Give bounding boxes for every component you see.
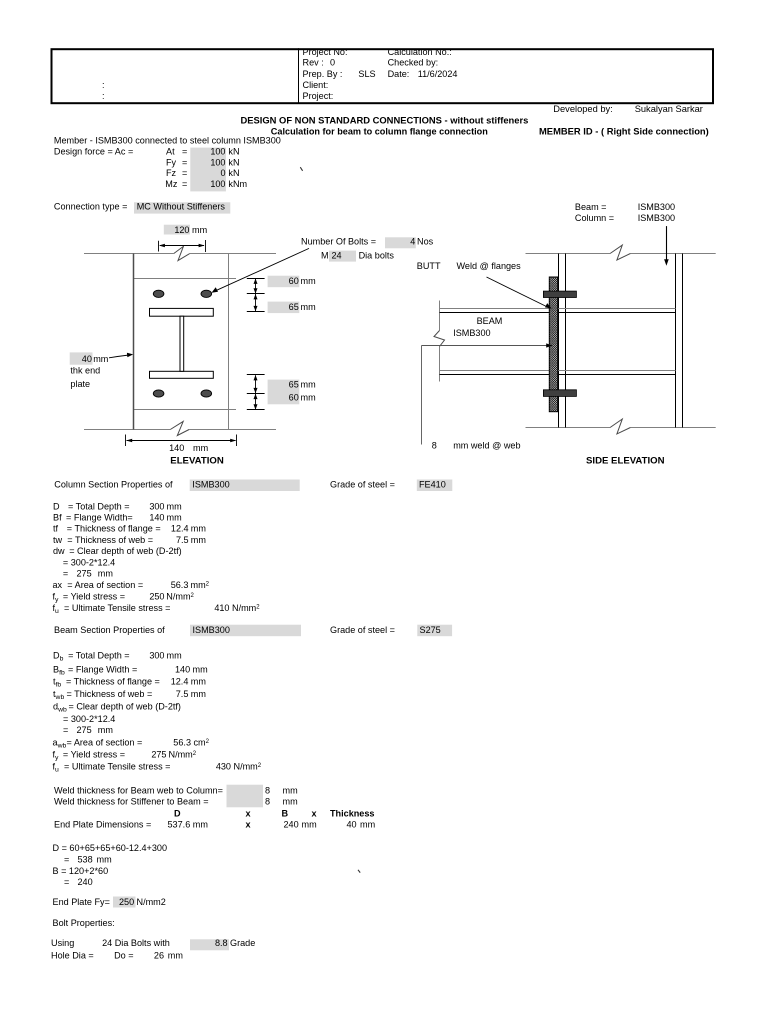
svg-text:mm: mm: [360, 820, 375, 830]
svg-text:mm: mm: [193, 443, 208, 453]
svg-text:plate: plate: [70, 379, 90, 389]
svg-text:= 300-2*12.4: = 300-2*12.4: [63, 714, 115, 724]
svg-text:BEAM: BEAM: [477, 316, 503, 326]
svg-text:=: =: [64, 855, 69, 865]
svg-text:Do =: Do =: [114, 950, 133, 960]
svg-text:At: At: [166, 146, 175, 156]
svg-text:thk end: thk end: [70, 366, 100, 376]
svg-text:Grade: Grade: [230, 938, 255, 948]
svg-text:120: 120: [174, 225, 189, 235]
svg-text:=: =: [63, 568, 68, 578]
svg-text:mm: mm: [301, 392, 316, 402]
svg-text:Hole Dia =: Hole Dia =: [51, 950, 94, 960]
svg-text:mm weld @ web: mm weld @ web: [453, 440, 520, 450]
svg-text:8: 8: [432, 440, 437, 450]
svg-text:mm: mm: [192, 225, 207, 235]
svg-text:Checked by:: Checked by:: [388, 58, 439, 68]
svg-text:410: 410: [214, 603, 229, 613]
svg-text:300: 300: [149, 501, 164, 511]
svg-text:= Total Depth =: = Total Depth =: [68, 501, 130, 511]
svg-text:240: 240: [78, 877, 93, 887]
svg-text:ELEVATION: ELEVATION: [170, 455, 224, 466]
svg-text:140: 140: [149, 513, 164, 523]
svg-text:0: 0: [220, 168, 225, 178]
svg-text:mm: mm: [283, 786, 298, 796]
svg-text:= Thickness of web =: = Thickness of web =: [67, 535, 153, 545]
svg-text:mm: mm: [191, 689, 206, 699]
svg-text:Grade of steel =: Grade of steel =: [330, 479, 395, 489]
svg-text:= Thickness of flange =: = Thickness of flange =: [67, 524, 161, 534]
svg-text:8: 8: [265, 797, 270, 807]
svg-text:mm: mm: [193, 664, 208, 674]
svg-text:140: 140: [169, 443, 184, 453]
svg-text:tfb: tfb: [53, 677, 61, 689]
svg-text:dw: dw: [53, 546, 65, 556]
svg-text:538: 538: [78, 855, 93, 865]
svg-text:8: 8: [265, 786, 270, 796]
svg-text:= Ultimate Tensile stress =: = Ultimate Tensile stress =: [64, 603, 170, 613]
svg-text:Design force = Ac =: Design force = Ac =: [54, 146, 133, 156]
svg-text:65: 65: [289, 302, 299, 312]
svg-text:x: x: [246, 820, 251, 830]
svg-text:tw: tw: [53, 535, 63, 545]
svg-text:537.6 mm: 537.6 mm: [168, 820, 208, 830]
svg-text:End Plate Dimensions =: End Plate Dimensions =: [54, 820, 151, 830]
svg-text:ISMB300: ISMB300: [192, 479, 229, 489]
svg-text:mm: mm: [301, 302, 316, 312]
svg-text:= Area of section =: = Area of section =: [67, 580, 143, 590]
svg-text:ISMB300: ISMB300: [638, 213, 675, 223]
svg-text:SLS: SLS: [358, 69, 375, 79]
svg-text:Weld @ flanges: Weld @ flanges: [457, 261, 522, 271]
svg-text:= Thickness of flange =: = Thickness of flange =: [66, 677, 160, 687]
svg-text:dwb: dwb: [53, 702, 67, 714]
svg-text:4: 4: [410, 237, 415, 247]
svg-text:fu: fu: [53, 762, 60, 774]
svg-text:Connection type =: Connection type =: [54, 202, 128, 212]
svg-text:Fz: Fz: [166, 168, 177, 178]
svg-text:mm: mm: [168, 950, 183, 960]
svg-text:N/mm2: N/mm2: [169, 750, 197, 760]
svg-text:7.5: 7.5: [176, 535, 189, 545]
svg-text:Column Section Properties of: Column Section Properties of: [54, 479, 173, 489]
svg-text:S275: S275: [420, 625, 441, 635]
svg-text:mm: mm: [191, 535, 206, 545]
svg-text:7.5: 7.5: [176, 689, 189, 699]
svg-text:mm: mm: [283, 797, 298, 807]
svg-text:mm: mm: [191, 677, 206, 687]
svg-text:=: =: [182, 146, 187, 156]
svg-text:fu: fu: [53, 603, 60, 615]
svg-text:250: 250: [149, 591, 164, 601]
svg-text:MC Without Stiffeners: MC Without Stiffeners: [137, 202, 226, 212]
svg-text:=: =: [63, 725, 68, 735]
svg-text:40: 40: [82, 354, 92, 364]
svg-text:100: 100: [210, 157, 225, 167]
svg-text:x: x: [312, 809, 317, 819]
svg-text:=: =: [64, 877, 69, 887]
svg-text:11/6/2024: 11/6/2024: [418, 69, 458, 79]
svg-text:Fy: Fy: [166, 157, 177, 167]
svg-text:250: 250: [119, 897, 134, 907]
svg-text:12.4: 12.4: [171, 524, 189, 534]
svg-text:BUTT: BUTT: [417, 261, 441, 271]
svg-text:mm: mm: [167, 513, 182, 523]
svg-text:=: =: [182, 168, 187, 178]
svg-text:mm: mm: [167, 651, 182, 661]
svg-text:= Total Depth =: = Total Depth =: [68, 651, 130, 661]
svg-text:Developed by:: Developed by:: [553, 104, 612, 114]
svg-text:mm: mm: [301, 380, 316, 390]
svg-text:cm2: cm2: [194, 737, 210, 747]
svg-text:140: 140: [175, 664, 190, 674]
svg-text:= Flange Width=: = Flange Width=: [66, 513, 133, 523]
svg-text:240: 240: [284, 820, 299, 830]
svg-text:FE410: FE410: [419, 479, 446, 489]
svg-text:26: 26: [154, 950, 164, 960]
svg-text:60: 60: [289, 276, 299, 286]
svg-text:Bf: Bf: [53, 513, 62, 523]
svg-text:kN: kN: [228, 168, 239, 178]
svg-text:x: x: [246, 809, 251, 819]
svg-text:430: 430: [216, 762, 231, 772]
svg-text:N/mm2: N/mm2: [232, 603, 260, 613]
svg-text:mm: mm: [93, 354, 108, 364]
svg-text:tf: tf: [53, 524, 59, 534]
svg-text:Weld thickness for Stiffener t: Weld thickness for Stiffener to Beam =: [54, 797, 209, 807]
svg-text:mm2: mm2: [191, 580, 210, 590]
svg-text:Mz: Mz: [165, 179, 178, 189]
svg-text:56.3: 56.3: [173, 737, 191, 747]
svg-text:N/mm2: N/mm2: [137, 897, 166, 907]
svg-text:=: =: [182, 179, 187, 189]
svg-text:mm: mm: [98, 725, 113, 735]
svg-text:60: 60: [289, 392, 299, 402]
svg-text:Project No:: Project No:: [303, 47, 348, 57]
svg-text:Dia bolts: Dia bolts: [359, 250, 395, 260]
svg-text:kNm: kNm: [228, 179, 247, 189]
svg-text:=: =: [182, 157, 187, 167]
svg-text:ISMB300: ISMB300: [193, 625, 230, 635]
svg-text:mm: mm: [191, 524, 206, 534]
svg-text:Number Of Bolts =: Number Of Bolts =: [301, 237, 376, 247]
svg-text:D = 60+65+65+60-12.4+300: D = 60+65+65+60-12.4+300: [53, 843, 168, 853]
svg-text:mm: mm: [301, 276, 316, 286]
svg-text:kN: kN: [228, 157, 239, 167]
svg-text:8.8: 8.8: [215, 938, 228, 948]
svg-text:Bfb: Bfb: [53, 664, 65, 676]
svg-text:mm: mm: [167, 501, 182, 511]
svg-text:Grade of steel =: Grade of steel =: [330, 625, 395, 635]
svg-text:24: 24: [332, 250, 342, 260]
svg-text:DESIGN OF NON STANDARD CONNECT: DESIGN OF NON STANDARD CONNECTIONS - wit…: [241, 114, 529, 125]
svg-text:ISMB300: ISMB300: [638, 202, 675, 212]
svg-text:B: B: [282, 809, 289, 819]
svg-text:Calculation for beam to column: Calculation for beam to column flange co…: [271, 127, 488, 137]
svg-text:D: D: [53, 501, 60, 511]
svg-text:= Ultimate Tensile stress =: = Ultimate Tensile stress =: [64, 762, 170, 772]
svg-text:= Flange Width =: = Flange Width =: [68, 664, 137, 674]
svg-text:kN: kN: [228, 146, 239, 156]
svg-text:awb: awb: [53, 737, 67, 749]
svg-text:100: 100: [210, 146, 225, 156]
svg-text:ISMB300: ISMB300: [453, 328, 490, 338]
svg-text:Bolt Properties:: Bolt Properties:: [53, 918, 115, 928]
svg-text:N/mm2: N/mm2: [166, 591, 194, 601]
svg-text::: :: [102, 91, 105, 101]
svg-text:D: D: [174, 809, 181, 819]
svg-text:mm: mm: [98, 568, 113, 578]
svg-text:100: 100: [210, 179, 225, 189]
svg-text:= 300-2*12.4: = 300-2*12.4: [63, 557, 115, 567]
svg-text:Date:: Date:: [388, 69, 410, 79]
svg-text:fy: fy: [53, 750, 60, 762]
svg-text:275: 275: [77, 725, 92, 735]
svg-text:MEMBER ID - ( Right Side conne: MEMBER ID - ( Right Side connection): [539, 126, 709, 137]
svg-text:= Yield stress =: = Yield stress =: [63, 591, 125, 601]
svg-text::: :: [102, 80, 105, 90]
svg-text:Client:: Client:: [303, 80, 329, 90]
svg-text:mm: mm: [302, 820, 317, 830]
svg-text:M: M: [321, 250, 329, 260]
svg-text:65: 65: [289, 380, 299, 390]
svg-text:= Area of section =: = Area of section =: [67, 737, 143, 747]
svg-text:= Yield stress =: = Yield stress =: [63, 750, 125, 760]
svg-text:12.4: 12.4: [171, 677, 189, 687]
svg-text:B = 120+2*60: B = 120+2*60: [53, 866, 109, 876]
svg-text:= Thickness of web =: = Thickness of web =: [67, 689, 153, 699]
svg-text:300: 300: [149, 651, 164, 661]
svg-text:275: 275: [151, 750, 166, 760]
svg-text:ax: ax: [53, 580, 63, 590]
svg-text:Weld thickness for Beam web to: Weld thickness for Beam web to Column=: [54, 786, 223, 796]
svg-text:mm: mm: [97, 855, 112, 865]
svg-text:56.3: 56.3: [171, 580, 189, 590]
svg-text:Member - ISMB300 connected to: Member - ISMB300 connected to steel colu…: [54, 135, 281, 145]
svg-text:Using: Using: [51, 938, 74, 948]
svg-text:= Clear depth of web (D-2tf): = Clear depth of web (D-2tf): [69, 702, 181, 712]
svg-text:24 Dia Bolts with: 24 Dia Bolts with: [102, 938, 170, 948]
svg-text:40: 40: [347, 820, 357, 830]
svg-text:Rev :: Rev :: [303, 58, 324, 68]
svg-text:SIDE ELEVATION: SIDE ELEVATION: [586, 456, 665, 467]
svg-text:0: 0: [330, 58, 335, 68]
svg-text:Thickness: Thickness: [330, 809, 374, 819]
svg-text:Calculation No.:: Calculation No.:: [388, 47, 452, 57]
svg-text:Beam =: Beam =: [575, 202, 607, 212]
svg-text:twb: twb: [53, 689, 64, 701]
svg-text:fy: fy: [53, 591, 60, 603]
svg-text:N/mm2: N/mm2: [234, 762, 262, 772]
svg-text:Prep. By :: Prep. By :: [303, 69, 343, 79]
svg-text:Beam Section Properties of: Beam Section Properties of: [54, 625, 165, 635]
svg-text:Column =: Column =: [575, 213, 614, 223]
svg-text:End Plate Fy=: End Plate Fy=: [53, 897, 110, 907]
svg-text:Sukalyan Sarkar: Sukalyan Sarkar: [635, 104, 703, 114]
svg-text:Project:: Project:: [303, 91, 334, 101]
svg-text:= Clear depth of web (D-2tf): = Clear depth of web (D-2tf): [69, 546, 181, 556]
svg-text:Db: Db: [53, 651, 64, 663]
svg-text:275: 275: [77, 568, 92, 578]
svg-text:Nos: Nos: [417, 237, 434, 247]
